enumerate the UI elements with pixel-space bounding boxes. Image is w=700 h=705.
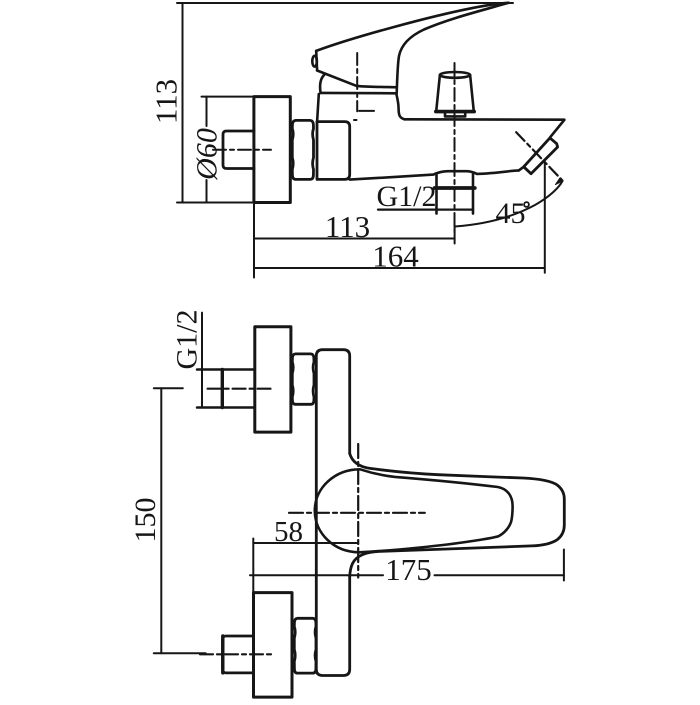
45 degree leader arrowhead <box>556 178 563 184</box>
top nipple flange line <box>221 370 224 408</box>
svg-text:Ø60: Ø60 <box>191 128 224 181</box>
diverter knob base <box>445 112 465 117</box>
bottom wall escutcheon (plan view) <box>254 593 293 698</box>
dimension line 150 <box>160 388 162 653</box>
dimension line 58 <box>253 542 357 544</box>
extension line top of escutcheon <box>202 96 255 98</box>
dimension line 113 vertical <box>182 3 184 203</box>
body top edge <box>405 118 565 121</box>
cartridge centerline horizontal dash <box>359 110 374 112</box>
svg-text:G1/2: G1/2 <box>377 180 437 213</box>
bottom coupling nut (plan view) <box>294 618 316 673</box>
svg-text:164: 164 <box>372 239 419 274</box>
bottom nipple flange line <box>221 636 224 673</box>
svg-text:113: 113 <box>149 79 184 124</box>
top inlet nipple (plan view) <box>197 370 254 408</box>
svg-text:G1/2: G1/2 <box>171 310 204 370</box>
tub outlet left edge <box>435 175 438 214</box>
fitting foot to spout <box>519 167 524 171</box>
bottom pipe centerline (plan view) <box>200 653 274 655</box>
cartridge housing left edge <box>317 94 319 122</box>
diverter knob (side view) <box>436 75 474 112</box>
diverter knob bottom edge <box>436 110 474 114</box>
handle lever top edge <box>316 3 508 51</box>
inlet boss on body <box>317 122 350 180</box>
spout bottom edge <box>350 170 519 179</box>
tub outlet right edge <box>472 174 475 214</box>
centerline dot <box>354 119 357 121</box>
inlet pipe nipple (side view) <box>223 131 254 169</box>
tub outlet lower ring and G1/2 leader underline <box>378 209 473 211</box>
extension line shower fitting <box>544 162 546 273</box>
handle lever right S-curve <box>397 3 509 94</box>
extension line wall face <box>253 203 255 278</box>
svg-text:175: 175 <box>385 552 432 587</box>
G1/2 dimension line (plan view) <box>201 313 203 408</box>
degree symbol <box>524 202 529 207</box>
top wall escutcheon (plan view) <box>255 327 291 432</box>
svg-text:58: 58 <box>274 516 303 548</box>
body column (plan view) <box>316 350 349 676</box>
45 degree leader arc <box>455 181 563 227</box>
dimension line 164 <box>254 267 545 269</box>
150 bottom extension tick <box>154 652 206 654</box>
extension line handle front (plan view) <box>563 550 565 581</box>
diverter knob top ellipse <box>440 72 470 78</box>
handle lever bottom edge <box>317 71 396 88</box>
extension line outlet center <box>454 225 456 244</box>
top coupling nut (plan view) <box>292 354 314 404</box>
handle outer outline (plan view) <box>350 454 565 577</box>
bottom inlet nipple (plan view) <box>223 636 254 673</box>
extension line top of handle <box>177 2 513 4</box>
top pipe centerline (plan view) <box>208 388 271 390</box>
handle lever left tip edge <box>315 51 318 71</box>
cartridge centerline <box>356 53 358 111</box>
cartridge cap left arc <box>320 75 324 93</box>
extension line bottom of escutcheon <box>177 202 254 204</box>
svg-text:150: 150 <box>129 498 162 543</box>
shower axis centerline 45 deg <box>516 132 562 180</box>
dimension line diameter 60 <box>206 97 208 126</box>
pipe centerline (side view) <box>213 149 271 151</box>
tub outlet thick ring <box>435 186 475 190</box>
knob and outlet centerline <box>454 63 456 232</box>
coupling nut (side view) <box>292 120 313 179</box>
svg-text:45: 45 <box>496 197 526 230</box>
150 top extension tick <box>154 387 183 389</box>
svg-text:113: 113 <box>325 209 370 244</box>
extension line wall face (plan view) <box>252 539 254 593</box>
wall escutcheon plate (side view) <box>254 97 290 203</box>
spout right slant edge <box>550 120 564 137</box>
dimension line 175 <box>250 574 383 576</box>
cartridge cap line <box>321 92 395 95</box>
handle lever tongue (plan view) <box>315 469 513 552</box>
shower outlet fitting (45 deg plate) <box>524 138 558 174</box>
plan centerline vertical <box>357 444 359 578</box>
handle lever tip screw ellipse <box>312 56 317 67</box>
plan centerline horizontal <box>289 512 425 514</box>
cartridge housing right edge <box>396 93 404 119</box>
dimension line 113 horizontal <box>254 238 455 240</box>
